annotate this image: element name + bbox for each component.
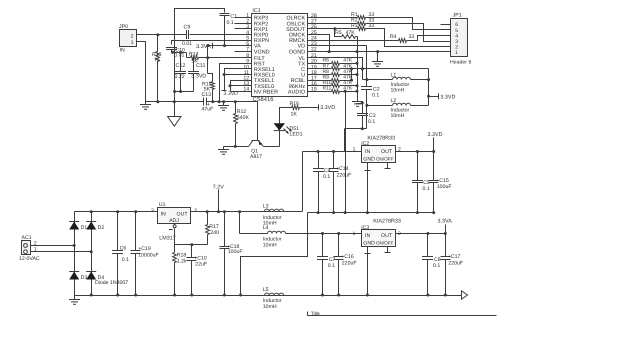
resistor R5 body [342,35,356,39]
wire C9 to IC1 RXP0 pin4 [190,34,252,36]
inductor L3 body [265,209,284,211]
wire R16 to 3.3VD [300,107,319,109]
wire R18 top lead [174,245,176,253]
svg-text:22uF: 22uF [195,262,207,268]
node junction R13 bottom [156,100,159,103]
wire TX row to R6 [308,63,332,65]
svg-text:IN: IN [161,211,166,217]
svg-text:220uF: 220uF [337,172,352,178]
svg-text:GND: GND [363,156,375,162]
wire gnd rail left segment [146,101,204,103]
node junction rail/C18 [223,294,226,297]
wire RXSEL1 pin10 riser [225,69,252,91]
wire IC3 GND stub [367,247,369,296]
svg-text:IC1: IC1 [252,8,260,14]
svg-text:JP0: JP0 [119,24,128,30]
wire C7 bottom lead [322,260,324,296]
wire C18 bottom lead [224,249,226,296]
connector JP0 SPDIF input [120,30,137,47]
node junction gnd stem [222,100,225,103]
svg-text:47uF: 47uF [202,107,214,113]
svg-text:1: 1 [131,40,134,46]
wire lower node rail [175,91,194,93]
node junction R15 bottom [211,100,214,103]
wire R5 left lead [335,29,342,37]
ground -- open triangle analog ground [174,102,176,117]
svg-text:C12: C12 [176,63,186,69]
svg-text:10mH: 10mH [391,87,405,93]
inductor L1 body [393,77,411,79]
svg-text:0.1: 0.1 [227,20,234,26]
node junction ADJ/C10b [190,243,193,246]
wire C6 top lead [117,212,119,251]
svg-text:+C17: +C17 [448,254,461,260]
wire ADJ rail [175,244,208,246]
capacitor C5 body [412,180,423,182]
wire C8 top lead [427,234,429,257]
wire L3 riser [302,152,304,212]
capacitor C8 body [422,256,433,258]
wire NVRBER pin14 row [231,91,252,93]
svg-text:LED1: LED1 [290,131,303,137]
node junction rail/C6 [116,294,119,297]
wire L2 left lead [367,105,393,107]
wire C15 bottom lead [433,183,435,213]
node junction rail/C17 [444,294,447,297]
node junction IC2 gnd/rail [366,211,369,214]
svg-text:ON/OFF: ON/OFF [376,156,394,161]
svg-text:L1: L1 [391,72,397,78]
resistor R11 body [332,90,340,94]
resistor R7 body [332,67,340,71]
node junction SDOUT/R5 [333,27,336,30]
capacitor C7 body [317,256,328,258]
svg-text:C11: C11 [196,63,206,69]
wire DGND pin22 row to JP1 pin1 [308,51,451,53]
wire R13 bottom to gnd rail [157,62,159,102]
node junction TXSEL0/riser [229,84,232,87]
capacitor C1 body [220,13,230,15]
wire VL riser to L1 node [363,79,367,81]
svg-text:220uF: 220uF [342,260,357,266]
node junction C12 bottom [179,90,182,93]
wire VA to FILT riser [207,46,209,58]
node junction OUT/R17 [206,210,209,213]
svg-text:R14: R14 [189,52,199,58]
diode D2 [86,221,96,223]
wire collector horizontal [345,128,367,130]
resistor R10 body [332,84,340,88]
svg-text:NV RBER: NV RBER [254,89,278,95]
wire L4 riser [239,212,241,234]
wire R10 right lead [340,85,345,87]
power 3.3VA bracket tick [212,43,214,49]
node junction C16 top [337,232,340,235]
node junction OUT/L4 riser [238,210,241,213]
wire C7 top lead [322,234,324,257]
resistor R17 body [206,225,210,235]
svg-text:R4: R4 [390,34,397,40]
svg-text:IN: IN [365,149,370,155]
node -- off-page arrow [462,291,468,299]
node -- sheet title block [307,312,309,316]
svg-text:3: 3 [455,39,458,45]
power 3.3VD bracket tick R16 [318,104,320,110]
wire C1 bottom to VA row [224,16,226,46]
node junction 3.3VA riser [444,232,447,235]
wire C12 top lead [180,53,182,72]
svg-text:+C14: +C14 [336,166,349,172]
wire IC2 IN rail [303,151,362,153]
svg-text:7.2V: 7.2V [213,185,224,191]
wire L4 left lead [240,233,268,235]
wire R14 left lead [186,53,188,58]
inductor L4 body [268,231,286,233]
node junction L1 left [365,78,368,81]
svg-text:100uF: 100uF [228,249,243,255]
wire AC1 pin1 [31,251,92,253]
svg-text:R16: R16 [290,101,300,107]
svg-text:C13: C13 [202,92,212,98]
wire FILT row to IC1 pin8 [208,57,252,59]
svg-text:1: 1 [455,50,458,56]
wire C11 top lead [193,58,195,72]
wire C2 top lead [366,80,368,87]
svg-text:LM317: LM317 [159,236,175,242]
svg-text:1: 1 [353,231,356,237]
wire R18 bottom lead [174,263,176,296]
wire TXSEL1 pin12 riser [231,81,252,92]
svg-text:10mH: 10mH [391,113,405,119]
wire OSLCK pin27 to R2 [308,23,358,25]
wire C2 bottom to collector [366,90,368,129]
power 3.3VD bracket tick L [438,93,440,99]
capacitor C17 body 220uF [445,234,447,257]
svg-text:1.2k: 1.2k [177,259,187,265]
wire U1 ADJ pin with circle [173,225,176,228]
wire C5 top lead [417,152,419,181]
svg-text:Header 6: Header 6 [450,60,471,66]
svg-text:240: 240 [210,230,219,236]
IC IC1 CS8416 digital audio receiver body [252,14,308,97]
capacitor C14 body 220uF [333,152,335,169]
wire IC1 RXPN pin5 to C10 [172,41,252,45]
svg-text:C9: C9 [184,24,191,30]
wire bus P vertical [351,69,353,81]
wire IC2 OUT rail [396,151,434,153]
capacitor C18 body 100uF [224,212,226,247]
svg-text:0.1: 0.1 [323,174,330,180]
wire R4 to JP1 pin4 [407,36,451,41]
svg-text:2: 2 [455,45,458,51]
wire C10b bottom lead [191,261,193,296]
resistor R13 body 75 [156,52,160,62]
node junction collector [361,127,364,130]
svg-text:AC1: AC1 [22,235,32,241]
wire IC2 ON/OFF stub [387,163,389,169]
wire R11 right lead [340,91,345,93]
wire top rail to C1 [175,9,225,53]
wire bridge left vertical [74,212,76,296]
inductor L5 body [265,293,284,295]
wire LED anode to R16 [280,108,292,124]
wire C5 bottom lead [417,183,419,213]
wire VD pin23 riser [308,46,367,80]
regulator IC3 body [362,230,396,247]
wire RMCK pin24 to R4 [308,40,399,42]
wire JP0 pin2 to C9 [137,34,187,36]
wire upper gnd rail [308,212,434,214]
node junction R12/gnd wire [234,145,237,148]
svg-text:220uF: 220uF [448,260,463,266]
node junction C8 top [426,232,429,235]
wire R10 to busG [345,85,358,87]
node junction C14 bottom [332,211,335,214]
svg-text:+C19: +C19 [138,246,151,252]
node junction gnd return/bottom rail [239,294,242,297]
wire C4 top lead [318,152,320,169]
svg-text:10mH: 10mH [263,304,277,310]
regulator IC2 body [362,146,396,163]
capacitor C4 body [313,168,324,170]
node junction AC/D2-D4 [90,250,93,253]
node junction FILT/R14 [206,56,209,59]
svg-text:VGND: VGND [254,49,270,55]
node junction rail/IC3 gnd [366,294,369,297]
svg-text:75: 75 [154,58,160,64]
wire R7 right lead [340,68,345,70]
svg-text:0.1: 0.1 [423,186,430,192]
wire C4 bottom lead [318,172,320,213]
svg-text:4: 4 [455,33,458,39]
wire SDOUT pin26 to R3 [308,28,358,30]
transistor Q1 A817 [252,140,260,142]
wire C8 bottom lead [427,260,429,296]
svg-text:5: 5 [455,28,458,34]
svg-text:IN: IN [120,48,125,54]
capacitor C15 body 100uF [433,152,435,181]
wire C16 bottom lead [338,260,340,296]
ground -- input ground symbol [145,102,147,105]
wire R14 left stub [187,57,191,59]
svg-text:D3: D3 [81,275,88,281]
wire gnd return path [241,213,308,296]
svg-text:12-0VAC: 12-0VAC [19,256,40,262]
node junction RST rail [218,100,221,103]
svg-text:3.3VD: 3.3VD [428,132,443,138]
capacitor C10 body [166,47,177,49]
svg-text:C6: C6 [120,246,127,252]
node junction rail/D2 [90,210,93,213]
wire C10 bottom to node [171,50,173,53]
wire 7.2V riser [218,190,220,212]
svg-text:3.3VD: 3.3VD [440,95,455,101]
svg-text:540K: 540K [237,115,250,121]
wire 3.3VA riser [445,225,447,234]
wire 3.3VD stub [429,96,439,98]
wire RST pin9 to reset rail [220,64,252,102]
wire R11 row to busG [345,91,358,93]
svg-text:DGND: DGND [289,49,305,55]
resistor R1 body [358,16,366,20]
capacitor C6 body [112,250,123,252]
node junction C5 top [416,150,419,153]
wire L4 to IC3 IN [286,233,362,235]
wire C6 bottom lead [117,254,119,296]
svg-text:0.1: 0.1 [433,263,440,269]
svg-text:Diode 1N4007: Diode 1N4007 [95,280,128,286]
wire C row to R7 [308,68,332,70]
node junction L2 left [365,104,368,107]
node junction DGND gnd [376,50,379,53]
capacitor C12 body [175,71,186,73]
capacitor C11 body [188,71,199,73]
svg-text:+C15: +C15 [436,178,449,184]
wire R13 top [157,35,159,52]
wire R8 to busG [345,74,358,76]
resistor R9 body [332,79,340,83]
svg-text:+C16: +C16 [341,254,354,260]
capacitor C19 body 10000uF [135,212,137,251]
diode D3 [69,271,79,273]
ground -- main ground symbol [74,296,76,300]
svg-text:L2: L2 [391,98,397,104]
node junction RXSEL0/riser [223,73,226,76]
inductor L2 body [393,103,411,105]
svg-text:L5: L5 [263,287,269,293]
wire L2 right lead [411,105,429,107]
svg-text:L4: L4 [263,225,269,231]
svg-text:0.1: 0.1 [122,257,129,263]
wire L1 right lead [411,79,429,81]
svg-text:0.22: 0.22 [175,74,185,80]
diode D51 LED1 [279,131,281,147]
svg-text:ADJ: ADJ [169,218,179,224]
wire R6 to busG [345,63,358,65]
svg-text:3: 3 [151,208,154,214]
regulator U1 LM317 body [158,208,191,224]
wire C14 bottom lead [333,172,335,213]
connector JP1 Header 6 [451,19,468,57]
svg-text:OUT: OUT [381,149,393,155]
wire C3 top lead [357,104,363,114]
ground -- C13/RST ground symbol [223,102,225,106]
svg-text:3.3VD: 3.3VD [224,91,239,97]
wire Q1 collector to gnd [224,146,249,148]
svg-text:Title: Title [311,311,320,317]
svg-text:3.3VD: 3.3VD [320,105,335,111]
wire R9 to busP [345,80,352,82]
svg-text:3.3VD: 3.3VD [191,73,206,79]
wire R15 bottom [212,90,214,102]
capacitor C13 body [203,98,205,106]
svg-text:KIA278R33: KIA278R33 [367,136,395,142]
node junction rail/C19 [134,294,137,297]
svg-text:OUT: OUT [381,233,393,239]
capacitor C3 body [357,113,368,115]
wire IC3 OUT rail [396,233,446,235]
node junction R12 top [234,100,237,103]
svg-text:0.1: 0.1 [328,263,335,269]
node junction rail/R18 [173,294,176,297]
wire R17 bottom lead [207,235,209,245]
svg-text:0.1: 0.1 [372,93,379,99]
svg-text:ON/OFF: ON/OFF [376,240,394,245]
resistor R8 body [332,73,340,77]
wire Q1 base from gnd rail [236,102,258,141]
wire VL pin21 riser [308,58,363,80]
node junction 3.3VD riser [432,150,435,153]
wire VA row to IC1 pin6 [208,45,252,47]
node junction OUT/7.2V [217,210,220,213]
wire RXSEL0 pin11 [225,74,252,76]
node junction L1 right [427,78,430,81]
node junction C12 top [179,51,182,54]
wire C19 bottom lead [135,254,137,296]
connector AC1 [22,241,31,255]
wire gnd rail right segment [207,101,236,103]
node junction rail/C7 [321,294,324,297]
wire R2 to JP1 pin3 [366,24,451,42]
svg-text:AUDIO: AUDIO [288,89,305,95]
wire R1 to JP1 pin5 [366,18,451,30]
wire IC2 GND stub [367,163,369,213]
svg-text:JP1: JP1 [453,12,462,18]
node junction C3 top [361,102,364,105]
wire R17 top lead [207,212,209,225]
node junction rail/C16 [337,294,340,297]
node junction rail/C19 [134,210,137,213]
node junction C15 bottom [432,211,435,214]
node junction AC/D1-D3 [73,244,76,247]
resistor R12 body [234,114,238,124]
svg-text:IN: IN [365,233,370,239]
node junction RXP0/R13 [156,33,159,36]
wire U1 OUT rail [191,211,303,213]
wire bus G vertical [357,37,359,102]
wire rectified rail to U1 IN [75,211,158,213]
svg-text:D2: D2 [98,225,105,231]
wire TXSEL0 pin13 [231,85,252,87]
node junction C10/top-rail [171,51,174,54]
wire R12 bottom lead [235,124,237,147]
capacitor C10b 22uF body [191,245,193,258]
node junction VL/3.3VD line [361,67,364,70]
wire C11 bottom lead [193,74,195,92]
node junction rail/C8 [426,294,429,297]
svg-text:10000uF: 10000uF [138,252,158,258]
svg-text:2: 2 [131,34,134,40]
svg-text:0.01: 0.01 [174,53,184,59]
node junction C1/VA [223,44,226,47]
capacitor C16 body 220uF [338,234,340,257]
wire R8 right lead [340,74,345,76]
wire RCBL row to R9 [308,80,332,82]
wire bridge right vertical [91,212,93,296]
node junction rail/D4 [90,294,93,297]
wire C3 bottom lead [362,116,364,129]
svg-text:3.3VA: 3.3VA [438,219,453,225]
node junction rail/C10b [190,294,193,297]
resistor R16 body [292,106,300,110]
node junction VA/FILT riser [206,44,209,47]
wire AUDIO row to R11 [308,91,332,93]
node junction OUT/C18 [223,210,226,213]
resistor R18 body [173,253,177,263]
node junction AGND riser [173,100,176,103]
resistor R14 body [191,56,199,60]
wire R5 right lead [356,36,358,38]
